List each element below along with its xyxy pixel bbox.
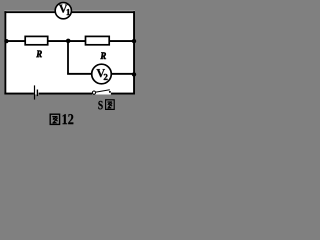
wire: vertical branch from middle junction down to V2 level bbox=[67, 41, 69, 73]
voltmeter V1 label bbox=[59, 5, 67, 13]
wire: left side bbox=[4, 11, 6, 94]
switch right contact bbox=[109, 91, 111, 93]
switch lever bbox=[96, 90, 110, 92]
caption figure number 12 bbox=[63, 114, 74, 124]
voltmeter V2 label bbox=[97, 69, 105, 77]
wire: V2 branch horizontal to circle bbox=[67, 73, 92, 75]
wire: middle row, between resistors bbox=[48, 40, 85, 42]
node: left border / middle wire junction bbox=[4, 39, 8, 43]
caption CJK glyph (tu) bbox=[50, 114, 59, 124]
wire: V2 circle to right border bbox=[112, 73, 135, 75]
resistor R (right) value label bbox=[100, 52, 106, 59]
node: right border / middle wire junction bbox=[132, 39, 136, 43]
node: middle junction between resistors bbox=[66, 39, 71, 44]
switch S label bbox=[98, 101, 102, 109]
wire: bottom side right of switch bbox=[111, 93, 135, 95]
circuit white interior bbox=[4, 11, 135, 95]
wire: bottom side left of battery bbox=[4, 93, 34, 95]
wire: right side bbox=[133, 11, 135, 94]
voltmeter V1 circle bbox=[55, 3, 71, 19]
wire: top side right of V1 bbox=[72, 11, 135, 13]
resistor R (right) body bbox=[86, 36, 110, 44]
wire: middle row, left border to resistor R (left) bbox=[4, 40, 25, 42]
wire: middle row, right resistor to right border bbox=[110, 40, 135, 42]
node: right border / V2 wire junction bbox=[132, 72, 136, 76]
wire: bottom side battery to switch bbox=[39, 93, 93, 95]
wire: top side left of V1 bbox=[4, 11, 55, 13]
switch contact circle bbox=[92, 91, 95, 94]
resistor R (left) body bbox=[25, 36, 48, 44]
resistor R (left) value label bbox=[36, 51, 42, 58]
gray background bbox=[0, 0, 139, 133]
voltmeter V2 circle bbox=[92, 64, 112, 84]
CJK glyph (tu) after S bbox=[106, 100, 115, 110]
battery short plate bbox=[37, 90, 38, 97]
battery long plate bbox=[34, 85, 35, 99]
